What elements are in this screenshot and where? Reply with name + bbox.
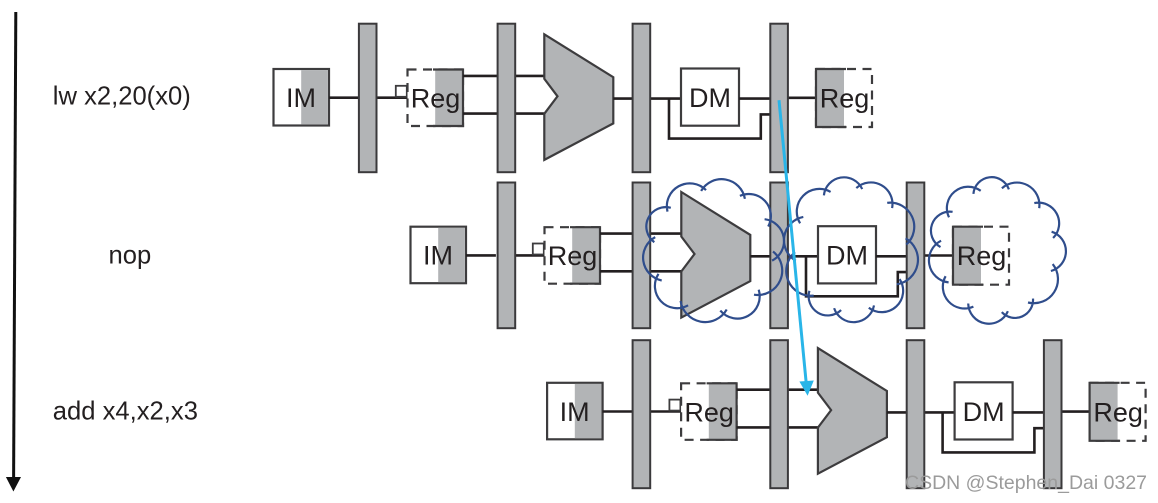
svg-text:CSDN @Stephen_Dai 0327: CSDN @Stephen_Dai 0327 — [905, 472, 1147, 494]
pipeline register bar col B row 1 — [498, 24, 516, 173]
pipeline register bar col F row 3 — [1044, 340, 1062, 488]
IM box row 3 — [547, 383, 603, 440]
svg-text:Reg: Reg — [957, 241, 1007, 271]
wire ALU to DM — [887, 411, 955, 414]
wire ALU to DM — [613, 97, 681, 100]
wire IM to pipeline bar — [603, 410, 633, 413]
svg-text:DM: DM — [963, 397, 1005, 427]
svg-text:Reg: Reg — [1093, 397, 1143, 427]
wire pipeline bar to Reg — [376, 96, 407, 99]
DM box row 2 — [818, 226, 876, 283]
bypass wire under DM — [943, 412, 1044, 452]
wire pipeline bar to writeback Reg — [788, 97, 817, 100]
wire DM to pipeline bar — [876, 255, 907, 258]
ALU row 3 — [818, 348, 887, 474]
wire Reg to ALU top input — [463, 75, 544, 78]
svg-text:Reg: Reg — [548, 241, 598, 271]
wire pipeline bar to Reg — [650, 410, 681, 413]
wire DM to pipeline bar — [739, 97, 770, 100]
writeback Reg box (dashed, left half shaded) row 3 — [1090, 383, 1146, 441]
wire IM to pipeline bar — [329, 96, 359, 99]
svg-text:IM: IM — [423, 241, 453, 271]
svg-text:Reg: Reg — [411, 84, 461, 114]
wire pipeline bar to writeback Reg — [925, 254, 954, 257]
DM box row 3 — [955, 382, 1013, 439]
wire pipeline bar to Reg — [513, 254, 544, 257]
svg-text:IM: IM — [286, 83, 316, 113]
Reg box (dashed, right half shaded) row 1 — [408, 70, 464, 127]
svg-text:DM: DM — [826, 241, 868, 271]
wire IM to pipeline bar — [466, 254, 496, 257]
pipeline register bar col C row 2 — [633, 183, 651, 329]
forwarding arrow (cyan) — [779, 100, 814, 396]
ALU row 2 — [681, 192, 750, 318]
cloud bubble around nop DM — [784, 177, 918, 322]
Reg box (dashed, right half shaded) row 3 — [681, 383, 737, 440]
pipeline register bar col C row 1 — [633, 24, 651, 173]
svg-text:DM: DM — [689, 83, 731, 113]
pipeline register bar col B row 2 — [498, 183, 516, 329]
IM box row 1 — [274, 69, 330, 126]
svg-text:Reg: Reg — [684, 397, 734, 427]
pipeline register bar col E row 2 — [907, 183, 925, 329]
pipeline register bar col D row 3 — [770, 340, 788, 488]
svg-text:nop: nop — [109, 242, 152, 270]
wire Reg to ALU top input — [600, 232, 681, 235]
write-clock square — [669, 400, 680, 411]
svg-text:lw x2,20(x0): lw x2,20(x0) — [53, 83, 191, 111]
svg-text:Reg: Reg — [820, 84, 870, 114]
pipeline register bar col A row 1 — [359, 24, 377, 173]
wire Reg to ALU bottom input — [600, 270, 681, 273]
cloud bubble around nop writeback Reg — [929, 177, 1066, 324]
svg-text:add x4,x2,x3: add x4,x2,x3 — [53, 398, 198, 426]
wire pipeline bar to writeback Reg — [1061, 410, 1090, 413]
wire Reg to ALU bottom input — [737, 426, 818, 429]
wire DM to pipeline bar — [1013, 411, 1044, 414]
write-clock square — [533, 244, 544, 255]
ALU row 1 — [544, 34, 613, 160]
pipeline register bar col E row 3 — [907, 340, 925, 488]
wire ALU to DM — [750, 255, 818, 258]
cloud bubble around nop ALU — [643, 179, 784, 322]
writeback Reg box (dashed, left half shaded) row 1 — [816, 69, 872, 127]
bypass wire under DM — [806, 256, 907, 296]
wire Reg to ALU bottom input — [463, 112, 544, 115]
time axis arrow — [6, 12, 21, 492]
write-clock square — [396, 86, 407, 97]
pipeline register bar col D row 1 — [770, 24, 788, 173]
bypass wire under DM — [669, 99, 770, 139]
pipeline register bar col C row 3 — [633, 340, 651, 488]
DM box row 1 — [681, 69, 739, 126]
pipeline register bar col D row 2 — [770, 183, 788, 329]
writeback Reg box (dashed, left half shaded) row 2 — [953, 227, 1009, 285]
Reg box (dashed, right half shaded) row 2 — [545, 227, 601, 284]
wire Reg to ALU top input — [737, 388, 818, 391]
svg-text:IM: IM — [560, 397, 590, 427]
IM box row 2 — [411, 227, 467, 284]
